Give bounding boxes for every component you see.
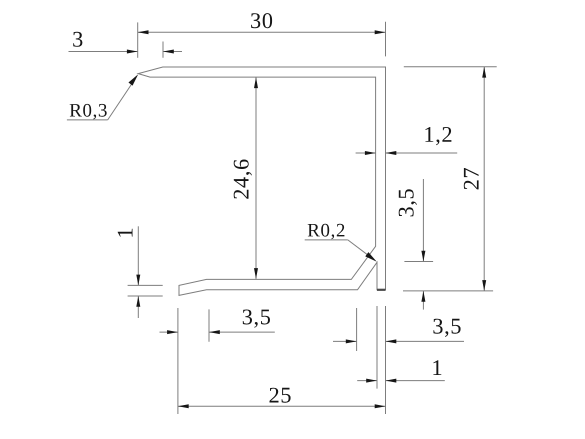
dim 3 right arrowhead	[163, 50, 174, 54]
dim 1,2 right arrow line	[386, 152, 458, 154]
dim 3,5 right upper arrowhead	[421, 251, 425, 262]
extension line for dim 3 at chamfer end	[162, 42, 164, 58]
dim text 30	[251, 13, 272, 28]
dim text 27	[464, 168, 479, 189]
dimension line 27	[483, 67, 485, 291]
dim 1 bottom right arrowhead	[386, 379, 397, 383]
dim 24,6 top arrowhead	[254, 77, 258, 88]
dim 3,5 bottom-left right arrowhead	[209, 330, 220, 334]
profile outline: extruded profile cross-section	[138, 67, 385, 295]
dim text 1 bottom	[433, 360, 441, 375]
R0,3 leader diagonal	[108, 81, 134, 120]
R0,2 leader arrowhead	[365, 252, 378, 264]
dim 25 right arrowhead	[375, 404, 386, 408]
dim 3 right arrow line	[163, 51, 182, 53]
dim 1,2 left arrow line	[356, 152, 376, 154]
dim 1 bottom left arrow line	[357, 380, 377, 382]
extension line at bend level	[404, 261, 433, 263]
extension line at slope end	[208, 309, 210, 341]
extension line wall inner below	[376, 306, 378, 389]
dim 3,5 bottom-left right arrow line	[209, 331, 275, 333]
label R0,2	[308, 224, 345, 240]
extension line tip bottom	[128, 295, 163, 297]
R0,2 leader underline	[305, 239, 348, 241]
extension line at bend outer start	[356, 308, 358, 351]
dim 3,5 bottom-left left arrowhead	[167, 330, 178, 334]
dim 3 left arrowhead	[127, 50, 138, 54]
dim 3,5 right upper arrow line	[422, 179, 424, 262]
extension line flange tip left	[177, 308, 179, 414]
dim 3,5 right lower arrowhead	[421, 291, 425, 302]
dim 1 left lower arrowhead	[136, 296, 140, 307]
R0,3 leader underline	[67, 119, 108, 121]
dim text 3,5 right	[399, 189, 417, 216]
dim 27 bottom arrowhead	[482, 280, 486, 291]
dim text 25	[270, 388, 291, 403]
dim 3,5 bottom-right right arrow line	[386, 340, 465, 342]
extension line right of dim 30	[385, 22, 387, 57]
R0,2 leader diagonal	[348, 240, 369, 256]
dim 3 left arrow line	[69, 51, 138, 53]
dim 1 left upper arrowhead	[136, 275, 140, 286]
dim text 1 left	[118, 229, 133, 237]
dim 3,5 right lower arrow line	[422, 291, 424, 310]
wall bottom end face (thick dark segment)	[377, 289, 386, 291]
dim text 1,2	[425, 127, 451, 145]
extension line tip top	[128, 284, 163, 286]
dim 24,6 bottom arrowhead	[254, 268, 258, 279]
dim 1 left upper arrow line	[137, 226, 139, 285]
dim 3,5 bottom-left left arrow line	[160, 331, 178, 333]
dim 1,2 right arrowhead	[386, 151, 397, 155]
dim 30 right arrowhead	[375, 30, 386, 34]
dim 3,5 bottom-right left arrow line	[333, 340, 357, 342]
dim 1,2 left arrowhead	[365, 151, 376, 155]
dim 1 bottom left arrowhead	[366, 379, 377, 383]
dim 1 bottom right arrow line	[386, 380, 445, 382]
dim 3,5 bottom-right left arrowhead	[346, 339, 357, 343]
dim 27 top arrowhead	[482, 67, 486, 78]
dim 30 left arrowhead	[138, 30, 149, 34]
dim text 3,5 bottom-left	[243, 310, 270, 328]
dim text 3,5 bottom-right	[433, 319, 460, 337]
dim 25 left arrowhead	[178, 404, 189, 408]
label R0,3	[70, 104, 107, 120]
extension line bottom for dims 27 and 3,5	[403, 290, 493, 292]
dim text 3	[73, 32, 82, 47]
extension line left of dim 30/3	[137, 22, 139, 57]
dimension line 25	[178, 405, 386, 407]
dim 1 left lower arrow line	[137, 296, 139, 318]
dimension line 30	[138, 31, 386, 33]
extension line top for dim 27	[404, 66, 497, 68]
dim text 24,6	[234, 160, 252, 199]
R0,3 leader arrowhead	[128, 73, 140, 86]
extension line wall outer below	[385, 306, 387, 414]
dim 3,5 bottom-right right arrowhead	[386, 339, 397, 343]
dimension line 24,6	[255, 77, 257, 279]
